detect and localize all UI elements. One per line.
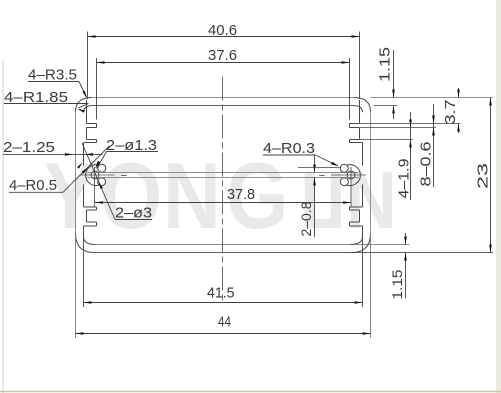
dimension 1.15 top extension <box>374 105 397 107</box>
right wall inner structure with PCB slots <box>350 100 363 237</box>
dimension 23 line <box>489 98 492 253</box>
left wall inner structure with PCB slots <box>84 100 97 237</box>
extra arrow at boss wall junction <box>77 163 82 169</box>
right edge scan strip <box>496 0 501 393</box>
boss mouth lower line <box>87 177 358 179</box>
svg-text:2–1.25: 2–1.25 <box>3 139 55 156</box>
profile lid bottom surface <box>93 105 353 107</box>
top-right lip inner arc R1.85 <box>353 106 363 113</box>
svg-text:O: O <box>100 144 162 248</box>
dimension 44 line <box>76 332 371 335</box>
dimension 41.5 extension lines <box>84 237 363 307</box>
left edge scan line <box>2 60 4 393</box>
dimension text 1.15 top <box>378 47 394 82</box>
dimension 37.8 boss center extensions <box>95 183 352 208</box>
dimension 8-0.6 line <box>432 104 435 187</box>
svg-text:1.15: 1.15 <box>378 47 394 82</box>
dimension 2-0.8 line <box>313 155 316 237</box>
svg-text:N: N <box>346 155 397 246</box>
right screw boss <box>340 164 360 185</box>
dimension text 41.5 <box>207 285 235 302</box>
label 4-R1.85 <box>4 89 89 113</box>
dimension 1.15 top line <box>392 50 395 119</box>
dimension 1.15 bottom line <box>404 233 407 299</box>
dimension 40.6 line <box>88 35 360 38</box>
label 2-1.25 <box>3 139 103 156</box>
bottom-right outer corner arc R3.5 <box>352 233 371 252</box>
label text 4-1.9 <box>397 159 413 199</box>
dimension text 37.8 <box>227 186 255 203</box>
watermark YONG LIN <box>44 144 397 248</box>
dimension 37.6 extension lines <box>97 58 350 120</box>
dimension 3.7 extension <box>360 123 461 125</box>
svg-text:1.15: 1.15 <box>390 270 405 300</box>
vertical centerline <box>222 77 224 303</box>
bottom-left inner corner arc R1.85 <box>84 237 96 245</box>
svg-text:2–0.8: 2–0.8 <box>298 201 314 236</box>
svg-text:44: 44 <box>218 314 231 331</box>
label 4-R3.5 <box>28 67 87 99</box>
right boss center cross <box>319 167 366 183</box>
profile outer wall left <box>75 112 77 233</box>
profile outer wall right <box>370 112 372 233</box>
dimension text 40.6 <box>208 22 237 39</box>
profile bottom outer surface + ext to 23 dim <box>94 252 493 254</box>
bottom edge scan line <box>0 391 501 393</box>
svg-text:3.7: 3.7 <box>443 100 459 125</box>
svg-text:N: N <box>163 144 221 248</box>
left boss center cross <box>80 167 127 183</box>
dimension 37.6 line <box>97 61 350 64</box>
top-left lip inner arc R1.85 <box>84 106 94 113</box>
dimension text 23 <box>476 163 492 189</box>
label 4-R0.5 with X leader <box>9 146 109 194</box>
svg-text:4–R3.5: 4–R3.5 <box>28 67 77 84</box>
dimension 3.7 line <box>457 88 460 133</box>
dimension 4-1.9 line <box>409 112 412 200</box>
dimension 8-0.6 extension <box>360 127 436 129</box>
profile lid top surface <box>92 97 354 99</box>
label text 2-0.8 <box>298 201 314 236</box>
svg-text:4–R0.5: 4–R0.5 <box>9 177 57 194</box>
dimension 44 extension lines <box>76 233 371 338</box>
top-left outer corner arc R3.5 <box>76 98 93 112</box>
label 2-ø3 with X leader <box>82 143 152 222</box>
bottom-right inner corner arc R1.85 <box>351 237 363 245</box>
left screw boss 2-ø3 / 2-ø1.3 <box>86 164 106 185</box>
dimension 40.6 extension lines <box>88 32 360 100</box>
dimension text 37.6 <box>208 47 237 64</box>
dimension text 1.15 bottom <box>390 270 405 300</box>
bottom-left outer corner arc R3.5 <box>76 233 95 252</box>
dimension text 44 <box>218 314 231 331</box>
svg-text:23: 23 <box>476 163 492 189</box>
svg-text:4–R0.3: 4–R0.3 <box>263 140 315 157</box>
svg-text:41.5: 41.5 <box>207 285 235 302</box>
profile bottom inner surface + ext to 1.15 dim <box>96 244 410 246</box>
svg-text:37.6: 37.6 <box>208 47 237 64</box>
dimension 37.8 line <box>95 201 351 204</box>
svg-text:2–ø3: 2–ø3 <box>115 205 152 222</box>
boss mouth upper line <box>87 172 358 174</box>
dimension 4-1.9 extension <box>360 139 413 141</box>
label 4-R0.3 <box>263 140 339 167</box>
dimension text 3.7 <box>443 100 459 125</box>
boss lip top line right <box>298 167 341 169</box>
label text 8-0.6 <box>419 142 435 187</box>
svg-text:37.8: 37.8 <box>227 186 255 203</box>
label 2-ø1.3 <box>95 137 158 169</box>
svg-text:8–0.6: 8–0.6 <box>419 142 435 187</box>
svg-text:I: I <box>326 155 345 246</box>
svg-text:40.6: 40.6 <box>208 22 237 39</box>
dimension 41.5 line <box>84 301 363 304</box>
svg-text:4–1.9: 4–1.9 <box>397 159 413 199</box>
top surface extension to 23 dim <box>371 97 493 99</box>
top-right outer corner arc R3.5 <box>354 98 371 112</box>
